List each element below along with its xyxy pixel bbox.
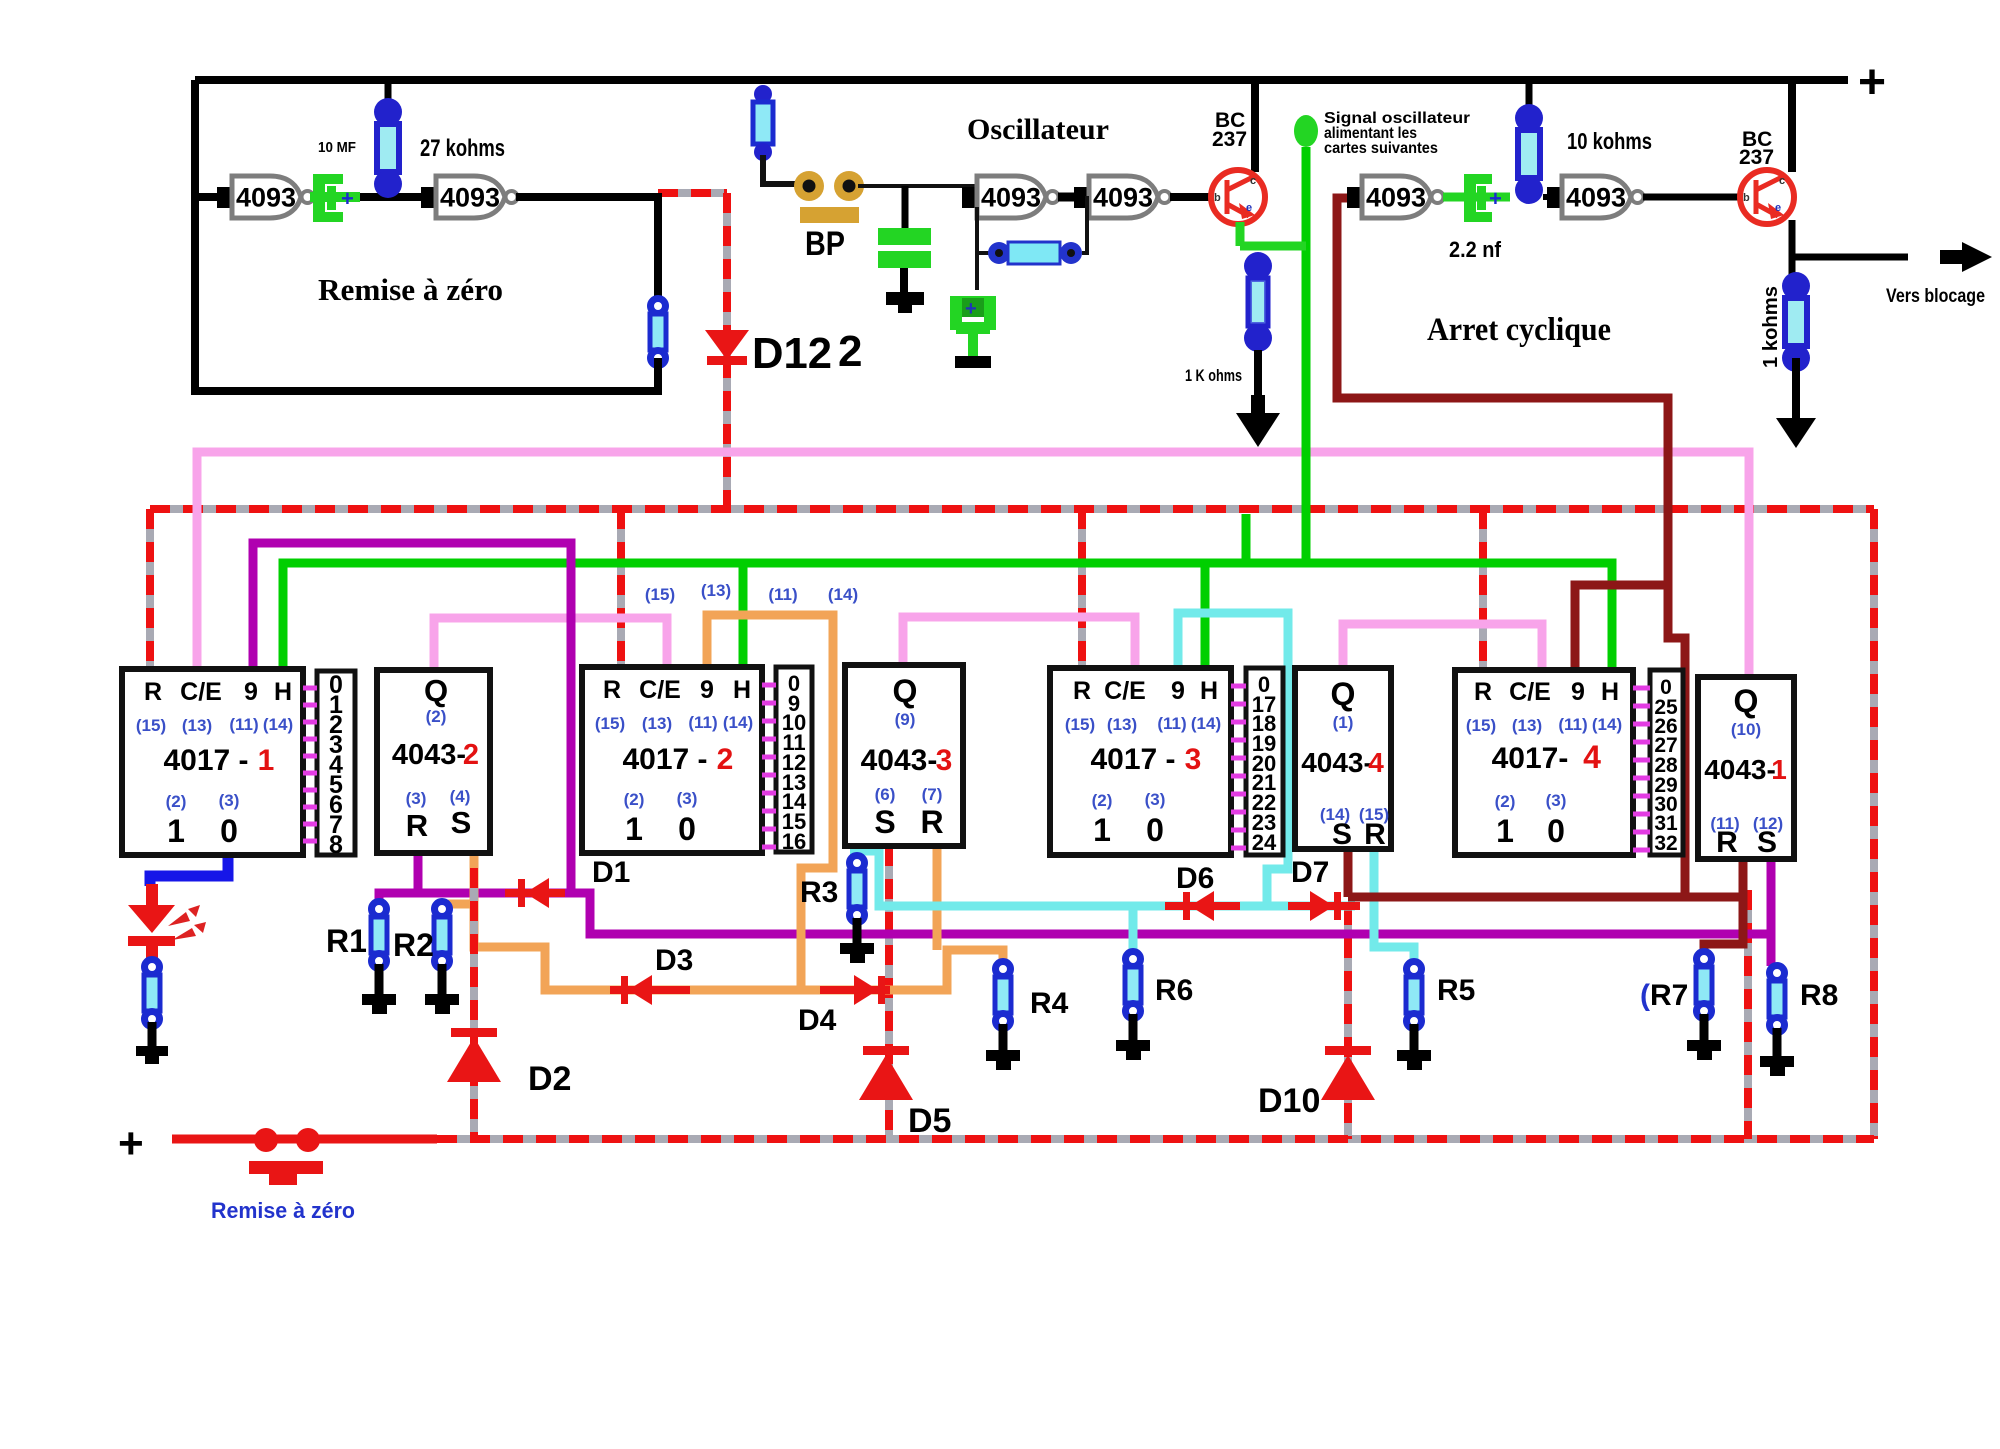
svg-text:H: H (274, 678, 292, 706)
svg-text:1: 1 (258, 744, 275, 777)
svg-text:(2): (2) (1092, 791, 1113, 810)
svg-text:9: 9 (1571, 678, 1585, 706)
svg-text:(: ( (1640, 979, 1650, 1012)
svg-text:(11): (11) (688, 713, 717, 732)
svg-text:(15): (15) (136, 716, 166, 735)
svg-text:(10): (10) (1731, 720, 1761, 739)
svg-text:Q: Q (1734, 683, 1759, 719)
svg-text:4: 4 (1583, 739, 1601, 775)
svg-text:0: 0 (678, 811, 696, 847)
svg-text:(3): (3) (1145, 790, 1166, 809)
svg-text:R: R (1716, 826, 1738, 859)
svg-text:R: R (406, 808, 428, 843)
svg-text:(3): (3) (406, 789, 427, 808)
svg-text:(2): (2) (166, 792, 187, 811)
svg-text:4017 -: 4017 - (163, 744, 248, 777)
svg-text:27 kohms: 27 kohms (420, 135, 505, 162)
svg-text:(11): (11) (229, 715, 258, 734)
svg-text:+: + (1489, 186, 1502, 211)
svg-text:0: 0 (220, 813, 238, 849)
svg-text:R: R (1073, 677, 1091, 705)
svg-text:1: 1 (167, 813, 185, 849)
svg-text:R8: R8 (1800, 979, 1838, 1012)
svg-text:(14): (14) (723, 713, 753, 732)
svg-text:9: 9 (1171, 677, 1185, 705)
svg-text:4043-: 4043- (1301, 747, 1373, 778)
svg-text:Remise à zéro: Remise à zéro (211, 1198, 355, 1223)
svg-text:S: S (451, 805, 472, 840)
svg-text:1: 1 (625, 811, 643, 847)
svg-text:(13): (13) (182, 716, 212, 735)
svg-text:2: 2 (463, 739, 479, 771)
svg-text:C/E: C/E (1509, 678, 1551, 706)
svg-text:1: 1 (1496, 813, 1514, 849)
svg-text:16: 16 (782, 829, 806, 854)
svg-text:D4: D4 (798, 1004, 837, 1037)
svg-text:4017 -: 4017 - (622, 743, 707, 776)
svg-text:R7: R7 (1650, 979, 1688, 1012)
svg-text:(3): (3) (219, 791, 240, 810)
svg-text:Oscillateur: Oscillateur (967, 113, 1109, 146)
svg-text:1: 1 (1771, 754, 1787, 785)
svg-text:D3: D3 (655, 944, 693, 977)
svg-text:S: S (1332, 818, 1352, 851)
svg-text:(13): (13) (701, 581, 731, 600)
svg-text:3: 3 (936, 744, 953, 777)
svg-text:3: 3 (1185, 743, 1202, 776)
svg-text:0: 0 (1146, 812, 1164, 848)
svg-text:Arret cyclique: Arret cyclique (1427, 312, 1611, 348)
svg-text:+: + (965, 298, 977, 320)
svg-text:(11): (11) (1558, 715, 1587, 734)
svg-text:4043-: 4043- (1704, 754, 1776, 785)
svg-text:0: 0 (1547, 813, 1565, 849)
svg-text:1 K ohms: 1 K ohms (1185, 366, 1242, 385)
svg-text:R: R (1474, 678, 1492, 706)
svg-text:4043-: 4043- (392, 739, 466, 771)
svg-text:(3): (3) (1546, 791, 1567, 810)
svg-text:237: 237 (1739, 146, 1774, 169)
svg-text:R: R (144, 678, 162, 706)
svg-text:4017 -: 4017 - (1090, 743, 1175, 776)
svg-text:(2): (2) (426, 707, 447, 726)
svg-text:+: + (1858, 56, 1886, 109)
svg-text:(9): (9) (895, 710, 916, 729)
svg-text:(13): (13) (1107, 715, 1137, 734)
svg-text:9: 9 (700, 676, 714, 704)
svg-text:(14): (14) (1191, 714, 1221, 733)
svg-text:1 kohms: 1 kohms (1760, 286, 1782, 368)
svg-text:C/E: C/E (1104, 677, 1146, 705)
svg-text:4043-: 4043- (861, 744, 938, 777)
svg-text:H: H (733, 676, 751, 704)
svg-text:Vers blocage: Vers blocage (1886, 286, 1985, 307)
svg-text:(2): (2) (1495, 792, 1516, 811)
svg-text:4017-: 4017- (1492, 742, 1569, 775)
svg-text:(14): (14) (828, 585, 858, 604)
svg-text:+: + (341, 186, 354, 211)
svg-text:Q: Q (424, 673, 448, 708)
svg-text:(2): (2) (624, 790, 645, 809)
svg-text:R: R (603, 676, 621, 704)
svg-text:(15): (15) (645, 585, 675, 604)
svg-text:9: 9 (244, 678, 258, 706)
svg-text:(6): (6) (875, 785, 896, 804)
svg-text:(14): (14) (1592, 715, 1622, 734)
svg-text:R1: R1 (326, 923, 367, 959)
svg-text:10 MF: 10 MF (318, 139, 356, 156)
svg-text:R5: R5 (1437, 974, 1475, 1007)
svg-text:1: 1 (1093, 812, 1111, 848)
svg-text:(7): (7) (922, 785, 943, 804)
svg-text:2.2 nf: 2.2 nf (1449, 237, 1502, 262)
svg-text:D1: D1 (592, 856, 630, 889)
svg-text:24: 24 (1252, 830, 1277, 855)
svg-text:(15): (15) (1065, 715, 1095, 734)
svg-text:R2: R2 (393, 927, 434, 963)
svg-text:(11): (11) (768, 585, 797, 604)
svg-text:237: 237 (1212, 128, 1247, 151)
svg-text:2: 2 (717, 743, 734, 776)
svg-text:R: R (1364, 818, 1386, 851)
svg-text:cartes suivantes: cartes suivantes (1324, 140, 1438, 157)
svg-text:(3): (3) (677, 789, 698, 808)
svg-text:4: 4 (1368, 747, 1384, 778)
svg-text:S: S (1757, 826, 1777, 859)
svg-text:(1): (1) (1333, 713, 1354, 732)
svg-text:(15): (15) (1466, 716, 1496, 735)
svg-text:10 kohms: 10 kohms (1567, 128, 1652, 154)
svg-text:2: 2 (838, 327, 862, 376)
svg-text:32: 32 (1654, 832, 1677, 855)
svg-text:(4): (4) (450, 787, 471, 806)
svg-text:R: R (920, 804, 943, 840)
svg-text:C/E: C/E (180, 678, 222, 706)
svg-text:S: S (874, 804, 895, 840)
svg-text:D10: D10 (1258, 1082, 1320, 1120)
svg-text:8: 8 (329, 831, 343, 859)
svg-text:R6: R6 (1155, 974, 1193, 1007)
svg-text:BP: BP (805, 225, 845, 263)
svg-text:H: H (1200, 677, 1218, 705)
svg-text:D2: D2 (528, 1060, 571, 1098)
svg-text:C/E: C/E (639, 676, 681, 704)
svg-text:D6: D6 (1176, 862, 1214, 895)
svg-text:(11): (11) (1157, 714, 1186, 733)
svg-text:Q: Q (893, 673, 918, 709)
svg-text:(13): (13) (642, 714, 672, 733)
svg-text:D7: D7 (1291, 856, 1329, 889)
svg-text:(14): (14) (263, 715, 293, 734)
svg-text:H: H (1601, 678, 1619, 706)
svg-text:R4: R4 (1030, 987, 1069, 1020)
svg-text:+: + (118, 1119, 144, 1168)
svg-text:Remise à zéro: Remise à zéro (318, 272, 503, 307)
svg-text:D12: D12 (752, 329, 832, 378)
svg-text:Q: Q (1331, 676, 1356, 712)
svg-text:D5: D5 (908, 1102, 951, 1140)
svg-text:(13): (13) (1512, 716, 1542, 735)
svg-text:(15): (15) (595, 714, 625, 733)
svg-text:R3: R3 (800, 876, 838, 909)
